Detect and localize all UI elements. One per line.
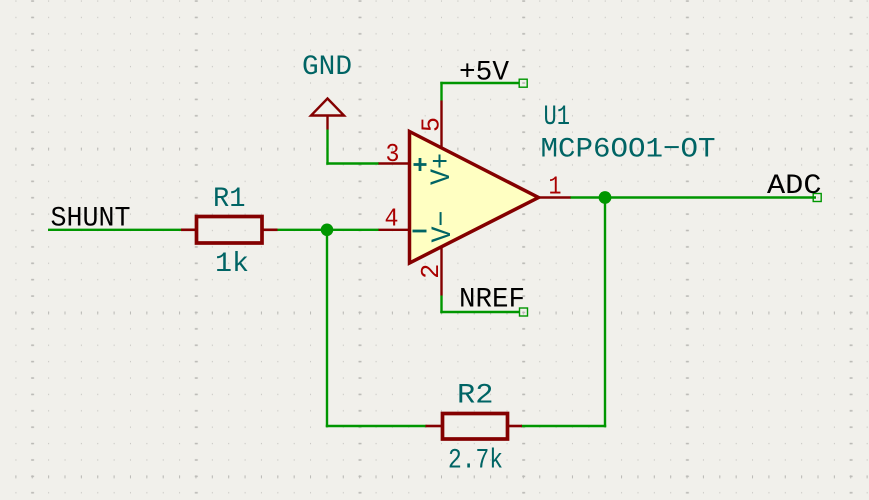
svg-text:ADC: ADC: [767, 171, 822, 202]
wire NREF horizontal: [440, 311, 519, 313]
svg-text:1: 1: [549, 173, 562, 202]
svg-text:4: 4: [385, 205, 399, 234]
wire feedback right vertical: [604, 198, 606, 428]
svg-text:R1: R1: [213, 184, 246, 215]
op-amp U1 pin 5: [440, 101, 442, 150]
svg-text:1k: 1k: [215, 249, 249, 280]
wire +5V vertical to pin 5: [440, 82, 442, 101]
svg-text:2.7k: 2.7k: [448, 446, 503, 477]
svg-text:GND: GND: [302, 52, 352, 83]
wire GND vertical: [326, 130, 328, 165]
unconnected end square NREF: [520, 308, 528, 316]
svg-text:R2: R2: [457, 381, 494, 412]
wire +5V horizontal: [440, 82, 519, 84]
op-amp U1 pin 3: [379, 162, 411, 164]
resistor R2: [426, 414, 523, 440]
svg-text:SHUNT: SHUNT: [51, 204, 131, 235]
svg-text:+5V: +5V: [459, 58, 509, 89]
svg-text:MCP6OO1−OT: MCP6OO1−OT: [541, 135, 716, 166]
svg-text:5: 5: [418, 117, 447, 132]
svg-text:V+: V+: [427, 153, 458, 185]
power symbol GND: [311, 99, 344, 130]
svg-text:NREF: NREF: [459, 285, 525, 316]
svg-text:3: 3: [386, 140, 400, 169]
wire node A down to feedback: [326, 230, 328, 427]
junction output node: [599, 191, 612, 204]
op-amp minus input marker: [413, 230, 427, 233]
wire pin 2 to NREF: [440, 296, 442, 314]
wire GND to pin 3: [326, 162, 379, 164]
op-amp U1 pin 2: [440, 246, 442, 296]
svg-text:U1: U1: [544, 102, 571, 133]
wire feedback bottom left: [326, 425, 427, 427]
op-amp plus input marker: [414, 158, 427, 171]
op-amp U1 pin 4: [379, 229, 411, 231]
svg-text:2: 2: [417, 264, 446, 279]
svg-text:V−: V−: [428, 211, 459, 243]
wire R1 to inverting input node: [276, 229, 379, 231]
resistor R1: [181, 217, 278, 244]
unconnected end square ADC: [813, 194, 821, 202]
junction node A: [321, 224, 334, 237]
op-amp U1 body: [410, 132, 539, 264]
wire SHUNT to R1: [48, 229, 182, 231]
unconnected end square +5V: [519, 79, 527, 87]
wire output to ADC: [570, 196, 816, 198]
op-amp U1 pin 1: [539, 196, 571, 198]
wire feedback bottom right: [521, 425, 606, 427]
